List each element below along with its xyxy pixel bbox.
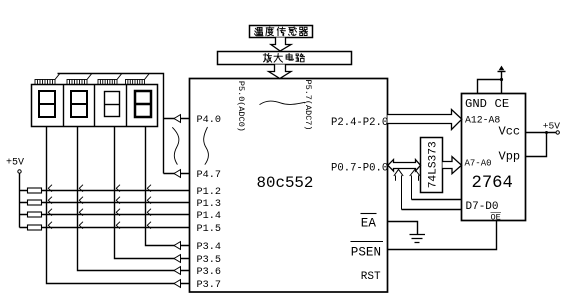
resistor R4 <box>28 225 42 230</box>
4-digit 7-segment display module DS1 <box>32 85 158 127</box>
svg-text:P0.7-P0.0: P0.7-P0.0 <box>331 162 388 174</box>
bus branch arrow (data) into P0 bus <box>394 169 403 209</box>
segment bus wire (display top) <box>58 74 164 119</box>
wire +5V rail to P1.2 <box>20 190 190 192</box>
svg-text:+5V: +5V <box>6 158 24 169</box>
wire +5V rail to P1.5 <box>20 227 190 229</box>
svg-text:P2.4-P2.0: P2.4-P2.0 <box>331 117 388 129</box>
svg-text:P3.5: P3.5 <box>197 255 221 266</box>
junction node <box>500 78 503 81</box>
bidirectional bus arrow P0.7-P0.0 to 74LS373 <box>388 160 421 171</box>
svg-text:A7-A0: A7-A0 <box>465 158 492 168</box>
wire display digit to P3.6 <box>78 127 190 271</box>
svg-text:P4.7: P4.7 <box>197 170 221 181</box>
+5V supply node (left) <box>18 170 21 173</box>
wire P4.7 <box>164 173 190 175</box>
svg-text:EA: EA <box>361 216 377 230</box>
bus arrow P2.4-P2.0 to A12-A8 <box>388 110 462 130</box>
+5V rail wire <box>19 173 21 227</box>
wire input buffer arrowhead <box>174 115 181 123</box>
svg-text:A12-A8: A12-A8 <box>465 114 500 125</box>
latch U2 74LS373 <box>421 138 443 193</box>
svg-text:P1.2: P1.2 <box>197 187 221 198</box>
svg-text:P4.0: P4.0 <box>197 115 221 126</box>
resistor R3 <box>28 212 42 217</box>
bus arrow 74LS373 to A7-A0 <box>443 157 462 174</box>
wire display digit to P3.4 <box>146 127 190 246</box>
svg-text:RST: RST <box>361 271 381 283</box>
resistor R1 <box>28 188 42 193</box>
wire crossing marks <box>48 185 151 229</box>
wire input buffer arrowhead <box>174 267 181 275</box>
bus branch arrow (address) into P0 bus <box>410 169 420 199</box>
wire input buffer arrowhead <box>174 170 181 178</box>
svg-text:OE: OE <box>491 212 501 222</box>
block: amplifier circuit <box>218 52 352 65</box>
block: temperature sensor <box>250 26 313 38</box>
microcontroller U1 80c552 <box>190 79 388 293</box>
7-segment digit 2 <box>71 91 87 117</box>
+5V terminal circle <box>556 131 559 134</box>
svg-text:2764: 2764 <box>472 174 513 193</box>
wire GND to CE tie <box>478 72 502 94</box>
7-segment digit 3 <box>105 92 120 117</box>
wire display digit to P3.5 <box>115 127 190 259</box>
svg-text:Vcc: Vcc <box>499 124 521 138</box>
power symbol (pull-up) <box>498 71 506 73</box>
svg-text:+5V: +5V <box>543 121 561 132</box>
display pin row 1 <box>35 80 55 85</box>
squiggle between P4.0 and P4.7 (inside chip) <box>204 127 209 165</box>
wire Vcc to +5V <box>526 132 557 134</box>
wire +5V to Vpp <box>526 133 547 157</box>
resistor R2 <box>28 200 42 205</box>
svg-text:80c552: 80c552 <box>257 174 314 192</box>
wire EA to ground <box>388 222 418 235</box>
block arrow (amplifier to ADC) <box>269 65 291 79</box>
block arrow (sensor to amplifier) <box>271 38 291 52</box>
svg-text:P1.4: P1.4 <box>197 211 221 222</box>
wire P4.0 <box>164 118 190 120</box>
svg-text:P3.7: P3.7 <box>197 280 221 291</box>
svg-text:Vpp: Vpp <box>499 149 521 163</box>
squiggle between P5.0 and P5.7 <box>260 101 306 105</box>
7-segment digit 4 <box>135 91 151 117</box>
wire D7-D0 lower bus line <box>402 209 462 211</box>
bus diagonal taps <box>55 74 149 80</box>
svg-text:P1.3: P1.3 <box>197 199 221 210</box>
display pin row 2 <box>67 80 87 85</box>
svg-text:GND: GND <box>465 97 487 111</box>
label 放大电路 (amplifier circuit) <box>263 53 271 62</box>
svg-text:74LS373: 74LS373 <box>428 141 440 188</box>
junction node <box>545 131 548 134</box>
wire PSEN to OE <box>388 221 497 250</box>
wire input buffer arrowhead <box>174 255 181 263</box>
squiggle (bundle mark, outside chip) <box>172 127 179 164</box>
EPROM U3 2764 <box>462 94 526 221</box>
display pin row 4 <box>126 80 145 85</box>
wire D7-D0 upper bus line <box>412 199 462 201</box>
display pin row 3 <box>98 80 117 85</box>
wire input buffer arrowhead <box>174 280 181 288</box>
wire input buffer arrowhead <box>174 242 181 250</box>
bus vertical P4.0-P4.7 <box>163 119 165 174</box>
svg-text:P3.6: P3.6 <box>197 267 221 278</box>
svg-text:CE: CE <box>495 97 510 111</box>
svg-text:P3.4: P3.4 <box>197 242 221 253</box>
svg-text:P5.7(ADC7): P5.7(ADC7) <box>303 79 313 130</box>
svg-text:P5.0(ADC0): P5.0(ADC0) <box>236 81 246 132</box>
7-segment digit 1 <box>39 91 55 117</box>
svg-text:PSEN: PSEN <box>351 246 381 260</box>
wire display digit to P3.7 <box>47 127 190 284</box>
wire +5V rail to P1.3 <box>20 202 190 204</box>
wire +5V rail to P1.4 <box>20 214 190 216</box>
svg-text:P1.5: P1.5 <box>197 224 221 235</box>
label 温度传感器 (temperature sensor) <box>254 27 263 35</box>
svg-text:D7-D0: D7-D0 <box>466 201 499 213</box>
ground symbol <box>410 235 426 243</box>
